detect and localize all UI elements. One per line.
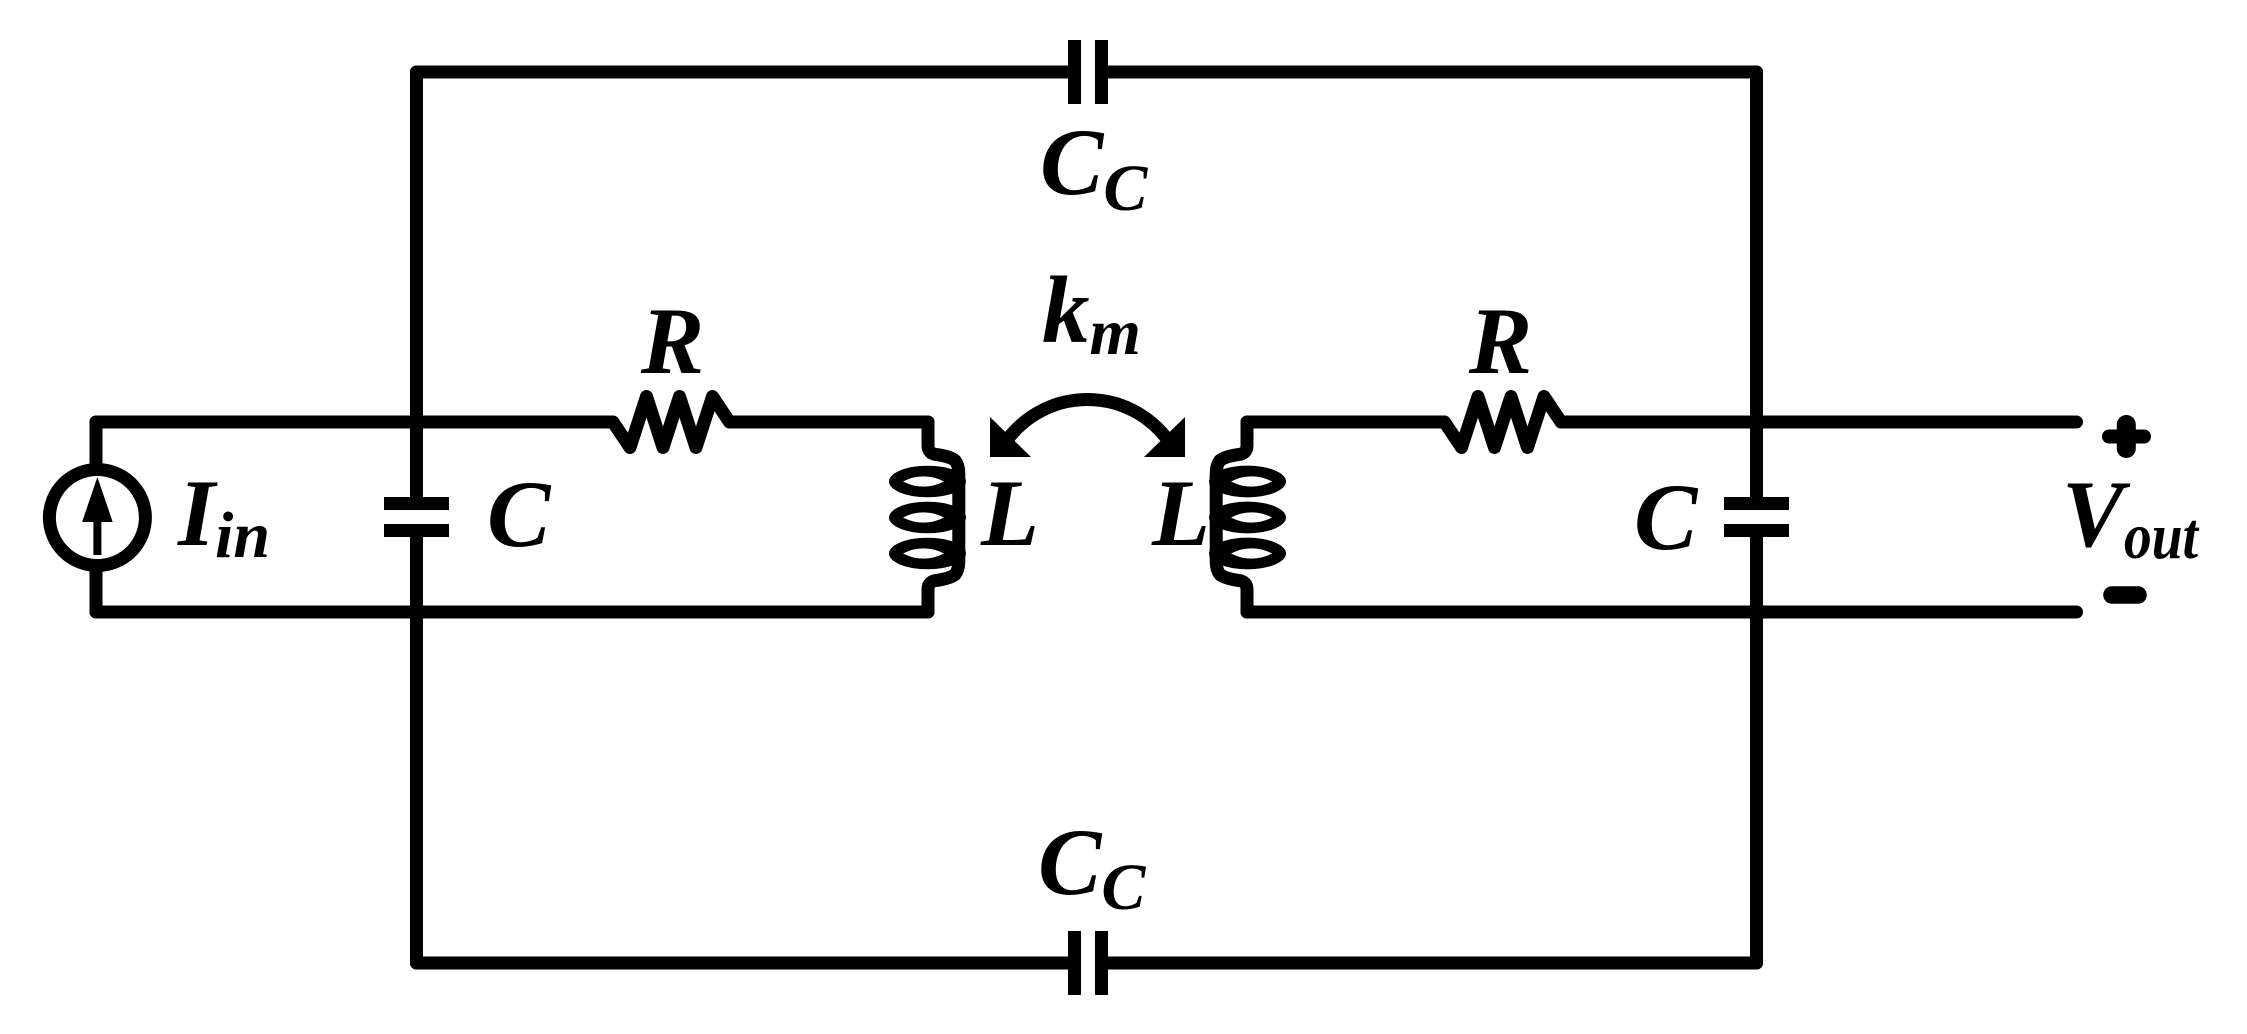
svg-text:L: L	[1151, 460, 1210, 566]
svg-text:V: V	[2062, 461, 2130, 567]
svg-text:C: C	[487, 461, 552, 567]
svg-text:C: C	[1634, 464, 1699, 570]
svg-text:out: out	[2124, 500, 2199, 573]
svg-text:L: L	[980, 460, 1039, 566]
svg-text:R: R	[1468, 288, 1532, 394]
svg-text:R: R	[640, 288, 704, 394]
